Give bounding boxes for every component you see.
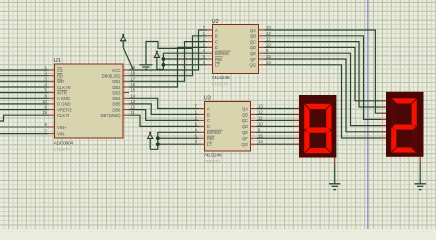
wire U2 QE to display2: [265, 53, 382, 125]
IC body U2 74LS248: [213, 25, 259, 74]
U1 ADC0804 pin label WR: [57, 79, 64, 84]
wire to U1 pin 7 VIN-: [0, 133, 49, 135]
wire ground staircase to U2 pin D column: [146, 42, 193, 65]
svg-text:<TEXT>: <TEXT>: [212, 82, 229, 87]
U2 74LS248 pin label A: [215, 28, 218, 33]
svg-text:DB5: DB5: [112, 102, 121, 107]
U3 74LS248 pin 14 (QG) stub: [251, 139, 264, 144]
svg-text:15: 15: [258, 133, 263, 138]
svg-text:DB3: DB3: [112, 90, 121, 95]
U1 ADC0804 pin label CLK IN: [57, 85, 71, 90]
U2 74LS248 pin label RBI: [215, 57, 223, 62]
svg-text:19: 19: [42, 110, 47, 115]
svg-text:QA: QA: [242, 106, 248, 111]
U1 ADC0804 pin label CLK R: [57, 113, 69, 118]
svg-text:14: 14: [131, 93, 136, 98]
svg-text:CLK R: CLK R: [57, 113, 69, 118]
wire U1 DB7 to U3 pin D: [129, 115, 199, 126]
svg-text:10: 10: [258, 121, 263, 126]
U1 ADC0804 pin 6 (VIN+) stub: [45, 122, 55, 127]
U1 ADC0804 pin 7 (VIN-) stub: [45, 129, 55, 134]
wire U1 DB1 to U2 pin C: [129, 42, 207, 82]
svg-text:10: 10: [266, 42, 271, 47]
power terminal (VCC arrow) above U1: [120, 34, 126, 48]
svg-text:13: 13: [258, 104, 263, 109]
wire to U1 pin 6 VIN+: [0, 126, 49, 128]
U2 74LS248 pin label LT: [215, 63, 220, 68]
svg-text:11: 11: [258, 115, 263, 120]
svg-text:WR: WR: [57, 79, 64, 84]
svg-text:74LS248: 74LS248: [212, 75, 230, 80]
svg-text:DB7(MSB): DB7(MSB): [100, 113, 121, 118]
svg-text:15: 15: [266, 54, 271, 59]
wire to U3 pin 3 LT: [158, 143, 199, 145]
svg-text:17: 17: [131, 76, 136, 81]
svg-text:RBI: RBI: [207, 136, 214, 141]
U1 ADC0804 pin 11 (DB7(MSB)) stub: [123, 110, 136, 115]
svg-text:RBI: RBI: [215, 57, 222, 62]
U3 74LS248 pin label RBI: [207, 136, 215, 141]
svg-text:15: 15: [131, 88, 136, 93]
wire to U3 pin 5 RBI: [158, 137, 199, 139]
U3 74LS248 pin 1 (B) stub: [195, 109, 205, 114]
svg-text:QC: QC: [250, 39, 256, 44]
wire to U1 pin 8: [0, 97, 49, 99]
svg-text:C: C: [215, 39, 218, 44]
svg-text:QF: QF: [242, 136, 248, 141]
display2 pin stub 3: [381, 112, 386, 114]
svg-text:RD: RD: [57, 74, 63, 79]
U1 ADC0804 pin 19 (CLK R) stub: [42, 110, 54, 115]
U2 74LS248 pin label D: [215, 45, 218, 50]
svg-text:<TEXT>: <TEXT>: [204, 159, 221, 164]
svg-text:D: D: [215, 45, 218, 50]
U1 ADC0804 pin 3 (WR) stub: [45, 76, 55, 81]
U2 74LS248 pin 15 (QF) stub: [259, 54, 272, 59]
wire to U1 pin 3: [0, 80, 49, 82]
display1 pin stub 2: [294, 113, 299, 115]
U1 ADC0804 pin 9 (VREF/2) stub: [45, 105, 55, 110]
svg-text:DB1: DB1: [112, 79, 121, 84]
svg-text:20: 20: [131, 65, 136, 70]
svg-text:BI/RBO: BI/RBO: [207, 130, 222, 135]
svg-text:QC: QC: [242, 118, 248, 123]
wire U2 QC to display2: [265, 42, 382, 107]
wire U3 QF to display1: [257, 137, 295, 139]
svg-text:14: 14: [258, 139, 263, 144]
svg-text:VREF/2: VREF/2: [57, 107, 72, 112]
wire U1 pin20 VCC to U2 pin A: [129, 30, 207, 70]
wire U2 QG to display2: [265, 65, 382, 138]
wire U1 DB0 to U2 pin B: [129, 36, 207, 76]
wire U3 QB to display1: [257, 113, 295, 115]
U2 74LS248 pin 1 (B) stub: [203, 31, 213, 36]
U3 74LS248 pin 2 (C) stub: [195, 115, 205, 120]
wire power bus to U3 pin 4 BI/RBO: [150, 132, 198, 149]
wire U3 QC to display1: [257, 119, 295, 121]
wire U2 QB to display2: [265, 36, 382, 120]
svg-text:VCC: VCC: [112, 68, 121, 73]
7-segment display DS2 (digit 2): [386, 92, 424, 157]
U1 ADC0804 pin label VIN-: [57, 131, 66, 136]
svg-text:QA: QA: [250, 28, 256, 33]
wire to U1 pin 19 (jog at sheet edge): [0, 115, 49, 121]
svg-text:QB: QB: [242, 112, 248, 117]
junction on U3 RBI wire: [156, 136, 160, 140]
U2 74LS248 pin label C: [215, 39, 218, 44]
svg-text:LT: LT: [215, 63, 220, 68]
wire power bus to U2 pin 4 BI/RBO: [157, 53, 207, 69]
wire U2 QD to display2: [265, 47, 382, 100]
svg-text:13: 13: [131, 99, 136, 104]
display2 pin stub 1: [381, 100, 386, 102]
wire to U1 pin 9: [0, 109, 49, 111]
wire U1 DB5 to U3 pin B: [129, 104, 199, 115]
svg-text:18: 18: [131, 71, 136, 76]
svg-text:A: A: [207, 106, 210, 111]
display2 pin stub 5: [381, 125, 386, 127]
svg-text:QG: QG: [241, 142, 248, 147]
U2 74LS248 pin 7 (A) stub: [203, 25, 213, 30]
wire U2 QA to display2: [265, 30, 382, 113]
svg-text:VIN-: VIN-: [57, 131, 66, 136]
U3 74LS248 pin label D: [207, 124, 210, 129]
svg-text:11: 11: [131, 110, 136, 115]
wire U3 QG to display1: [257, 143, 295, 145]
wire U3 QE to display1: [257, 131, 295, 133]
svg-text:QG: QG: [249, 63, 256, 68]
svg-text:12: 12: [266, 31, 271, 36]
svg-text:QE: QE: [250, 51, 256, 56]
svg-text:DB6: DB6: [112, 107, 121, 112]
wire U1 DB2 to U2 pin D: [129, 47, 207, 87]
U3 74LS248 pin 9 (QE) stub: [251, 127, 262, 132]
wire to U1 pin 5: [0, 92, 49, 94]
U3 74LS248 pin 13 (QA) stub: [251, 104, 264, 109]
svg-text:DB4: DB4: [112, 96, 121, 101]
svg-text:<TEXT>: <TEXT>: [54, 147, 71, 152]
U2 74LS248 pin 3 (LT) stub: [203, 60, 213, 65]
junction on U3 LT wire: [156, 142, 160, 146]
U1 ADC0804 pin 4 (CLK IN) stub: [45, 82, 55, 87]
U1 ADC0804 pin label VREF/2: [57, 107, 72, 112]
U3 74LS248 pin label LT: [207, 142, 212, 147]
U1 ADC0804 pin 10 (D GND) stub: [42, 99, 54, 104]
U2 74LS248 pin 9 (QE) stub: [259, 48, 270, 53]
U2 74LS248 pin 12 (QB) stub: [259, 31, 272, 36]
wire U2 QF to display2: [265, 59, 382, 132]
svg-text:QB: QB: [250, 34, 256, 39]
U3 74LS248 pin 15 (QF) stub: [251, 133, 264, 138]
U3 74LS248 pin 5 (RBI) stub: [195, 133, 205, 138]
svg-text:10: 10: [42, 99, 47, 104]
svg-text:12: 12: [131, 105, 136, 110]
U1 ADC0804 pin label VIN+: [57, 125, 67, 130]
U3 74LS248 pin 11 (QC) stub: [251, 115, 264, 120]
U3 74LS248 pin 10 (QD) stub: [251, 121, 264, 126]
U2 74LS248 pin 6 (D) stub: [203, 42, 213, 47]
wire U1 DB4 to U3 pin A: [129, 98, 199, 108]
display2 pin stub 4: [381, 118, 386, 120]
svg-text:BI/RBO: BI/RBO: [215, 51, 230, 56]
junction on U2 RBI wire: [162, 57, 166, 61]
svg-text:CLK IN: CLK IN: [57, 85, 71, 90]
display2 pin stub 2: [381, 106, 386, 108]
U1 ADC0804 pin 17 (DB1) stub: [123, 76, 136, 81]
display2 pin stub 6: [381, 131, 386, 133]
U3 74LS248 pin label A: [207, 106, 210, 111]
power terminal for U3 BI/RBO,RBI,LT: [147, 132, 153, 150]
display1 pin stub 6: [294, 137, 299, 139]
svg-text:QD: QD: [250, 45, 256, 50]
IC body U1 ADC0804: [55, 64, 124, 138]
sheet border (blue): [367, 0, 369, 229]
U3 74LS248 pin 6 (D) stub: [195, 121, 205, 126]
svg-text:U3: U3: [204, 96, 211, 102]
U2 74LS248 pin 11 (QC) stub: [259, 37, 272, 42]
display1 pin stub 4: [294, 125, 299, 127]
wire U3 QD to display1: [257, 125, 295, 127]
U1 ADC0804 pin label INTR: [57, 90, 67, 95]
wire to U1 pin 4: [0, 86, 49, 88]
svg-text:QE: QE: [242, 130, 248, 135]
U3 74LS248 pin 4 (BI/RBO) stub: [195, 127, 205, 132]
U2 74LS248 pin label BI/RBO: [215, 51, 231, 56]
svg-text:D GND: D GND: [57, 102, 71, 107]
wire to U1 pin 1: [0, 69, 49, 71]
svg-text:13: 13: [266, 25, 271, 30]
svg-text:U1: U1: [54, 58, 61, 64]
display2 pin stub 7: [381, 137, 386, 139]
display1 pin stub 3: [294, 119, 299, 121]
svg-text:DB0(LSB): DB0(LSB): [102, 74, 121, 79]
svg-text:A: A: [215, 28, 218, 33]
U2 74LS248 pin 5 (RBI) stub: [203, 54, 213, 59]
IC body U3 74LS248: [205, 102, 251, 152]
U2 74LS248 pin 10 (QD) stub: [259, 42, 272, 47]
U1 ADC0804 pin 18 (DB0(LSB)) stub: [123, 71, 136, 76]
display1 pin stub 7: [294, 143, 299, 145]
wire U3 QA to display1: [257, 108, 295, 110]
svg-text:C: C: [207, 118, 210, 123]
U3 74LS248 pin 7 (A) stub: [195, 104, 205, 109]
svg-text:QD: QD: [242, 124, 248, 129]
svg-text:U2: U2: [212, 19, 219, 25]
U2 74LS248 pin 14 (QG) stub: [259, 60, 272, 65]
U2 74LS248 pin 4 (BI/RBO) stub: [203, 48, 213, 53]
U3 74LS248 pin 3 (LT) stub: [195, 139, 205, 144]
U3 74LS248 pin label B: [207, 112, 210, 117]
svg-text:74LS248: 74LS248: [204, 153, 222, 158]
svg-text:D: D: [207, 124, 210, 129]
U3 74LS248 pin 12 (QB) stub: [251, 109, 264, 114]
svg-text:ADC0804: ADC0804: [54, 141, 74, 146]
svg-text:CS: CS: [57, 68, 63, 73]
U1 ADC0804 pin label RD: [57, 74, 63, 79]
7-segment display DS1 (digit 8): [299, 95, 336, 158]
svg-text:14: 14: [266, 60, 271, 65]
U1 ADC0804 pin 12 (DB6) stub: [123, 105, 136, 110]
U2 74LS248 pin 2 (C) stub: [203, 37, 213, 42]
wire to U2 pin 5 RBI: [163, 58, 206, 60]
svg-text:B: B: [207, 112, 210, 117]
U2 74LS248 pin label B: [215, 34, 218, 39]
ground under display2: [415, 157, 426, 190]
display1 pin stub 5: [294, 131, 299, 133]
junction on U2 LT wire: [162, 63, 166, 67]
U1 ADC0804 pin label A GND: [57, 96, 70, 101]
svg-text:12: 12: [258, 109, 263, 114]
U1 ADC0804 pin 15 (DB3) stub: [123, 88, 136, 93]
U1 ADC0804 pin 1 (CS) stub: [45, 65, 55, 70]
svg-text:16: 16: [131, 82, 136, 87]
U2 74LS248 pin 13 (QA) stub: [259, 25, 272, 30]
U3 74LS248 pin label BI/RBO: [207, 130, 223, 135]
svg-text:DB2: DB2: [112, 85, 121, 90]
U1 ADC0804 pin 16 (DB2) stub: [123, 82, 136, 87]
display1 pin stub 1: [294, 108, 299, 110]
svg-text:VIN+: VIN+: [57, 125, 67, 130]
U1 ADC0804 pin label D GND: [57, 102, 71, 107]
svg-text:11: 11: [266, 37, 271, 42]
U1 ADC0804 pin 2 (RD) stub: [45, 71, 55, 76]
ground under display1: [329, 158, 340, 190]
svg-text:INTR: INTR: [57, 90, 67, 95]
wire to U1 pin 2: [0, 75, 49, 77]
ground symbol near U1/U2: [140, 65, 153, 69]
U1 ADC0804 pin 5 (INTR) stub: [45, 88, 55, 93]
wire to U1 pin 10: [0, 103, 49, 105]
wire U1 DB6 to U3 pin C: [129, 110, 199, 121]
wire to U2 pin 3 LT: [163, 64, 206, 66]
power terminal for U2 BI/RBO,RBI,LT: [154, 51, 160, 70]
U1 ADC0804 pin 20 (VCC) stub: [123, 65, 136, 70]
U1 ADC0804 pin label CS: [57, 68, 63, 73]
wire VCC diagonal to U1 pin 20: [123, 48, 133, 70]
svg-text:LT: LT: [207, 142, 212, 147]
U3 74LS248 pin label C: [207, 118, 210, 123]
U1 ADC0804 pin 8 (A GND) stub: [45, 93, 55, 98]
svg-text:B: B: [215, 34, 218, 39]
U1 ADC0804 pin 13 (DB5) stub: [123, 99, 136, 104]
svg-text:A GND: A GND: [57, 96, 70, 101]
U1 ADC0804 pin 14 (DB4) stub: [123, 93, 136, 98]
svg-text:QF: QF: [250, 57, 256, 62]
